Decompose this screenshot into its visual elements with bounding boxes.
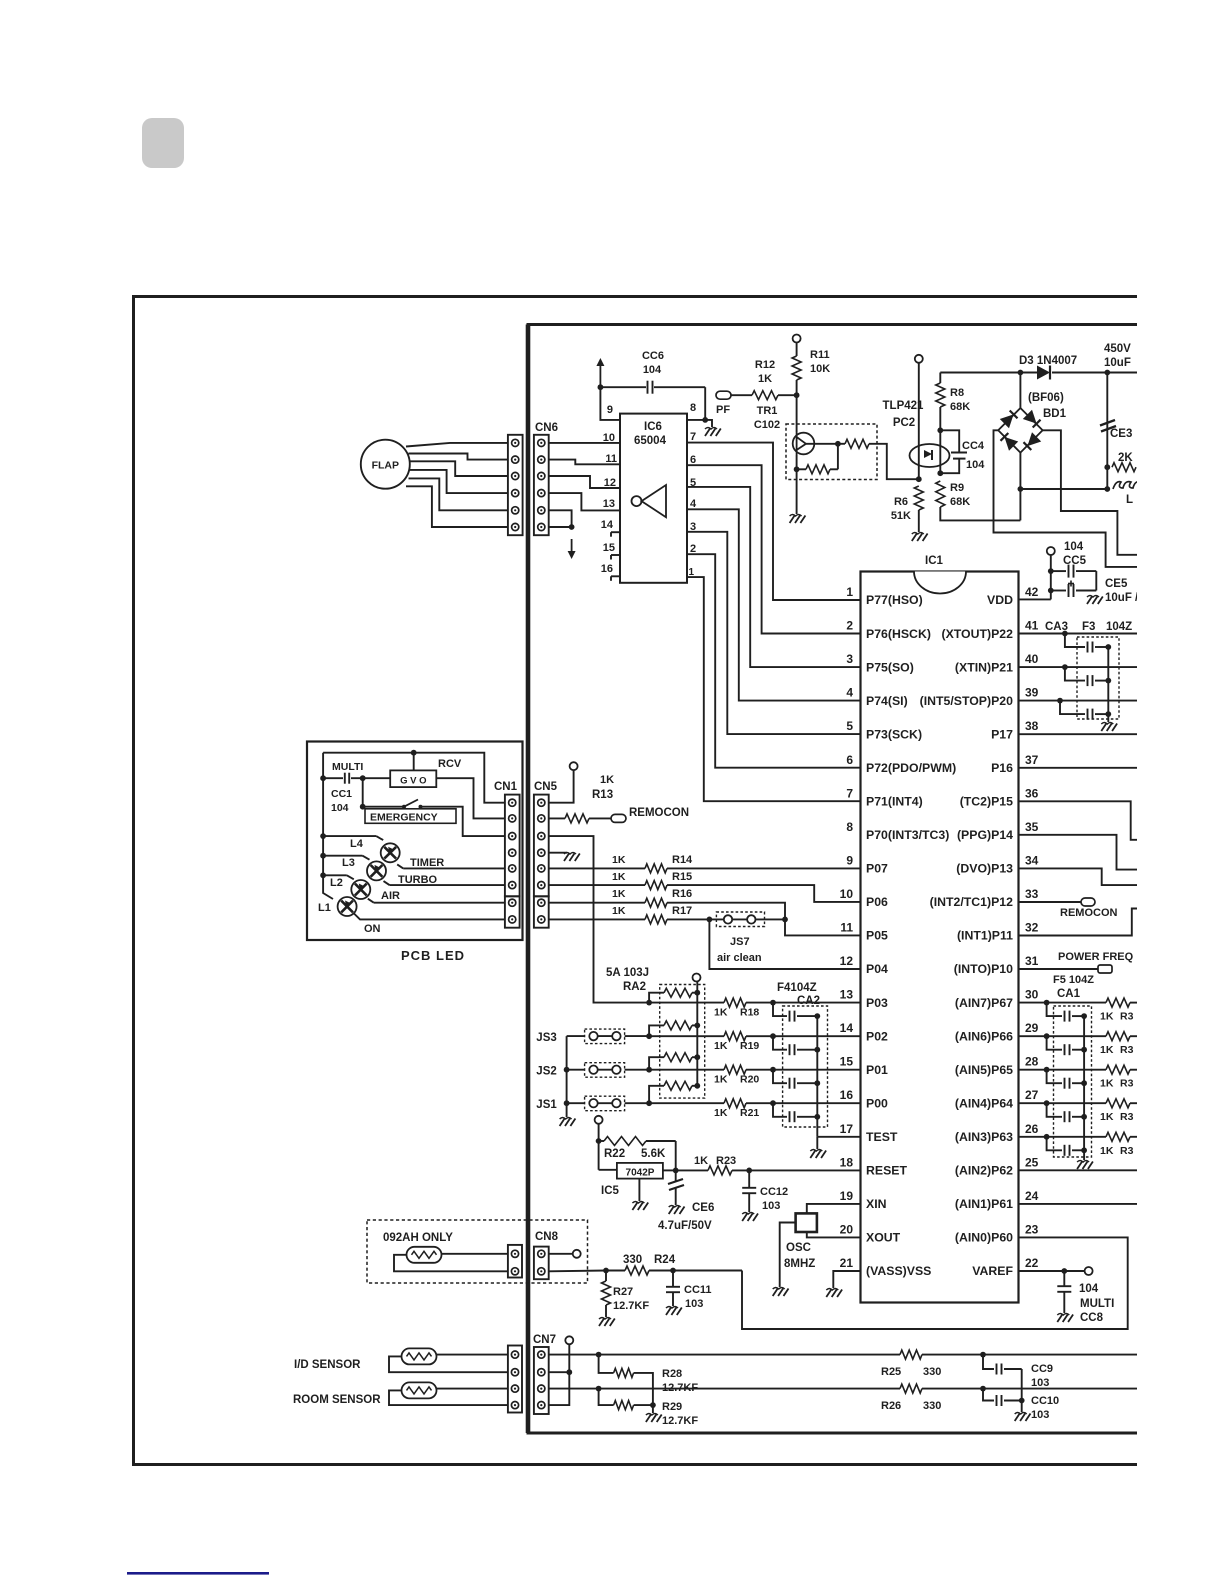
svg-text:18: 18 [840,1155,854,1169]
svg-text:(AIN1)P61: (AIN1)P61 [955,1197,1013,1211]
svg-text:R20: R20 [740,1074,759,1086]
svg-text:10uF: 10uF [1104,357,1131,369]
CN5 pin1 terminal [570,762,578,770]
capacitor CA3-2 [1065,667,1085,681]
svg-text:L4: L4 [350,838,364,850]
connector housing (left of CN6) [508,435,523,535]
svg-text:3: 3 [846,652,853,666]
svg-text:41: 41 [1025,619,1039,633]
svg-text:1K: 1K [612,888,626,900]
svg-text:092AH ONLY: 092AH ONLY [383,1232,453,1244]
svg-text:65004: 65004 [634,435,667,447]
svg-text:23: 23 [1025,1222,1039,1236]
svg-text:24: 24 [1025,1189,1039,1203]
svg-text:CC8: CC8 [1080,1312,1104,1324]
wire IC6 pin8 to CC6 and ground [687,419,705,421]
svg-text:32: 32 [1025,921,1039,935]
svg-text:(XTOUT)P22: (XTOUT)P22 [941,627,1013,641]
svg-text:1: 1 [846,585,853,599]
svg-text:103: 103 [762,1200,780,1212]
svg-text:1K: 1K [600,774,614,786]
capacitor CA1-4 [1047,1103,1062,1117]
svg-text:330: 330 [623,1254,642,1266]
resistor R11 10K [793,335,801,343]
wire P65 row with resistor 1K R3x [1019,1069,1107,1071]
svg-text:36: 36 [1025,786,1039,800]
motor FLAP [361,440,410,489]
resistor RA2-2 [649,1025,664,1036]
svg-text:104: 104 [331,802,349,814]
svg-text:6: 6 [846,753,853,767]
LED L2 AIR [323,874,347,876]
svg-text:1K: 1K [612,871,626,883]
capacitor CA1-2 [1047,1036,1062,1050]
jumper ground chain [566,1036,568,1117]
svg-text:1K: 1K [612,854,626,866]
connector housing (left of CN8) [508,1245,522,1278]
svg-text:P02: P02 [866,1029,888,1043]
row P11 [1019,909,1138,936]
row P14 [1019,835,1138,870]
svg-text:CC5: CC5 [1063,555,1087,567]
capacitor CA2-3 [773,1070,787,1084]
svg-text:104: 104 [1079,1283,1099,1295]
feedback resistor in TR1 box [837,444,839,470]
svg-text:1K: 1K [714,1074,728,1086]
svg-text:ROOM SENSOR: ROOM SENSOR [293,1394,381,1406]
svg-text:13: 13 [840,988,854,1002]
svg-text:REMOCON: REMOCON [1060,907,1118,919]
svg-text:L: L [1126,494,1133,506]
wire P66 row with resistor 1K R3x [1019,1035,1107,1037]
svg-text:1K: 1K [714,1040,728,1052]
svg-text:R12: R12 [755,359,775,371]
wires FLAP to connector [406,443,508,447]
svg-text:IC6: IC6 [644,421,662,433]
svg-text:JS1: JS1 [536,1099,557,1111]
svg-text:4: 4 [846,686,853,700]
svg-text:10uF /: 10uF / [1105,592,1139,604]
resistor R18 1K on P03 row [649,1002,724,1004]
svg-text:38: 38 [1025,719,1039,733]
svg-text:CC4: CC4 [962,440,985,452]
net JS7-left to P04 [709,919,860,969]
svg-text:5.6K: 5.6K [641,1148,666,1160]
svg-text:(AIN2)P62: (AIN2)P62 [955,1164,1013,1178]
svg-text:104: 104 [643,364,662,376]
resistor RA2-1 [649,993,664,1003]
GVO out to CN1 pin2 [436,778,505,818]
svg-text:P74(SI): P74(SI) [866,694,908,708]
wire IC6 pin9 [600,387,620,420]
svg-text:P07: P07 [866,862,888,876]
svg-text:7042P: 7042P [626,1167,655,1178]
svg-text:F5 104Z: F5 104Z [1053,974,1094,986]
svg-text:(INTO)P10: (INTO)P10 [954,962,1013,976]
capacitor CA2-4 [773,1103,787,1117]
svg-text:RCV: RCV [438,758,462,770]
svg-text:R14: R14 [672,854,693,866]
resistor R27 12.7KF [603,1268,609,1274]
svg-text:12.7KF: 12.7KF [613,1300,649,1312]
svg-text:CC11: CC11 [684,1284,712,1296]
svg-text:9: 9 [607,404,613,416]
svg-text:CN7: CN7 [533,1334,556,1346]
option box 092AH ONLY [367,1220,588,1283]
svg-text:1K: 1K [1100,1078,1114,1090]
capacitor CA1-5 [1047,1137,1062,1151]
net sensor2 row with R26 330 and CC10 [549,1388,900,1390]
wire P63 row with resistor 1K R3x [1019,1136,1107,1138]
svg-text:15: 15 [840,1055,854,1069]
wire P20 row [1019,700,1138,702]
svg-text:BD1: BD1 [1043,408,1067,420]
svg-text:12.7KF: 12.7KF [662,1415,698,1427]
svg-text:104Z: 104Z [1106,621,1132,633]
svg-text:CC10: CC10 [1031,1395,1059,1407]
svg-text:IC1: IC1 [925,555,944,567]
capacitor CA2-1 [773,1003,787,1017]
svg-text:TIMER: TIMER [410,857,444,869]
svg-text:P00: P00 [866,1097,888,1111]
svg-text:R9: R9 [950,482,964,494]
TEST row to CA2 common + ground [817,1136,860,1138]
terminal PF [716,391,731,399]
svg-text:EMERGENCY: EMERGENCY [370,811,438,823]
wire P22 row [1019,633,1138,635]
svg-text:1K: 1K [612,905,626,917]
svg-text:P04: P04 [866,962,888,976]
svg-text:D3 1N4007: D3 1N4007 [1019,355,1077,367]
svg-text:68K: 68K [950,401,970,413]
svg-text:P71(INT4): P71(INT4) [866,795,923,809]
svg-text:CC1: CC1 [331,788,352,800]
net VDD pin42 [1019,598,1051,600]
reset IC5 7042P [617,1163,663,1179]
svg-text:P01: P01 [866,1063,888,1077]
svg-text:R3: R3 [1120,1145,1134,1157]
svg-text:103: 103 [1031,1377,1049,1389]
svg-text:R3: R3 [1120,1111,1134,1123]
row P12 REMOCON [1019,901,1084,903]
svg-text:4.7uF/50V: 4.7uF/50V [658,1220,712,1232]
svg-text:(AIN5)P65: (AIN5)P65 [955,1063,1013,1077]
svg-text:MULTI: MULTI [1080,1298,1114,1310]
resistor R21 1K on P00 row [649,1102,724,1104]
svg-text:RESET: RESET [866,1164,907,1178]
svg-text:PF: PF [716,404,730,416]
capacitor CA3-3 [1060,701,1085,715]
svg-text:(AIN6)P66: (AIN6)P66 [955,1029,1013,1043]
svg-text:1K: 1K [1100,1044,1114,1056]
svg-text:JS2: JS2 [536,1066,556,1078]
svg-text:11: 11 [840,921,853,935]
svg-text:CN1: CN1 [494,781,518,793]
svg-text:19: 19 [840,1189,854,1203]
svg-text:(VASS)VSS: (VASS)VSS [866,1264,931,1278]
svg-text:40: 40 [1025,652,1039,666]
svg-text:5A 103J: 5A 103J [606,967,649,979]
EMERGENCY switch to CN1 pin3 [362,778,364,807]
page: gray rounded marker top-left [142,118,184,168]
svg-text:R27: R27 [613,1286,633,1298]
resistor R28 12.7KF [599,1355,614,1373]
svg-text:CC6: CC6 [642,350,664,362]
svg-text:CC9: CC9 [1031,1363,1053,1375]
svg-text:27: 27 [1025,1088,1039,1102]
svg-text:8: 8 [846,820,853,834]
svg-text:PC2: PC2 [893,417,915,429]
svg-text:REMOCON: REMOCON [629,807,689,819]
svg-text:(AIN4)P64: (AIN4)P64 [955,1097,1013,1111]
svg-text:21: 21 [840,1256,854,1270]
resistor RA2-4 [649,1086,664,1103]
wire P64 row with resistor 1K R3x [1019,1102,1107,1104]
svg-text:1K: 1K [1100,1145,1114,1157]
svg-text:(DVO)P13: (DVO)P13 [956,862,1013,876]
wire CN6 pins 5+6 to common arrow [549,510,572,527]
svg-text:2K: 2K [1118,452,1133,464]
svg-text:I/D SENSOR: I/D SENSOR [294,1359,361,1371]
inductor L [1113,482,1141,489]
svg-text:25: 25 [1025,1155,1039,1169]
svg-text:28: 28 [1025,1055,1039,1069]
svg-text:R28: R28 [662,1368,682,1380]
svg-text:R22: R22 [604,1148,625,1160]
svg-text:1K: 1K [714,1107,728,1119]
svg-text:4: 4 [690,498,697,510]
svg-text:330: 330 [923,1366,941,1378]
svg-text:L3: L3 [342,857,355,869]
capacitor CC11 103 [670,1268,676,1274]
svg-text:R17: R17 [672,905,692,917]
svg-text:P75(SO): P75(SO) [866,660,914,674]
svg-text:CA1: CA1 [1057,988,1081,1000]
svg-text:R15: R15 [672,871,692,883]
svg-text:F4104Z: F4104Z [777,982,817,994]
reset circuit R22 5.6K [595,1116,603,1124]
svg-text:33: 33 [1025,887,1039,901]
svg-text:13: 13 [603,498,615,510]
svg-text:C102: C102 [754,419,780,431]
svg-text:16: 16 [840,1088,854,1102]
capacitor CA2-2 [773,1036,787,1050]
svg-text:(TC2)P15: (TC2)P15 [960,795,1013,809]
svg-text:1K: 1K [714,1007,728,1019]
row P60 loop to R24 node [742,1237,1128,1329]
row P15 [1019,801,1138,840]
bridge minus wire [1019,453,1021,521]
svg-text:39: 39 [1025,686,1039,700]
svg-text:R25: R25 [881,1366,901,1378]
svg-text:(BF06): (BF06) [1028,392,1064,404]
svg-text:air clean: air clean [717,952,762,964]
svg-text:P76(HSCK): P76(HSCK) [866,627,931,641]
svg-text:103: 103 [1031,1409,1049,1421]
net VAREF with CC8 [1019,1270,1085,1272]
jumper JS7 air clean [707,917,713,923]
svg-text:R11: R11 [810,349,830,361]
svg-text:(AIN3)P63: (AIN3)P63 [955,1130,1013,1144]
svg-text:CN8: CN8 [535,1231,559,1243]
svg-text:AIR: AIR [381,890,400,902]
svg-text:P17: P17 [991,727,1013,741]
svg-text:1K: 1K [758,373,772,385]
svg-text:42: 42 [1025,585,1039,599]
resistor R19 1K on P02 row [649,1035,724,1037]
resistor R29 12.7KF [599,1389,614,1406]
svg-text:8: 8 [690,402,696,414]
svg-text:26: 26 [1025,1122,1039,1136]
net sensor1 row with R25 330 and CC9 [549,1354,900,1356]
IR receiver G V O [390,770,436,787]
svg-text:68K: 68K [950,496,970,508]
LED L3 TURBO [323,855,362,857]
ground CA1 [1077,1162,1082,1170]
IC6 output wires to IC1 [687,443,861,600]
svg-text:12.7KF: 12.7KF [662,1382,698,1394]
svg-text:P16: P16 [991,761,1013,775]
bridge AC-right wire [1043,430,1137,555]
outer schematic frame (clipped at right) [134,297,1138,1465]
resistor RA2-3 [649,1057,664,1070]
IC6 unused pin stubs 14 15 16 [611,531,620,533]
svg-text:104: 104 [966,459,985,471]
svg-text:PCB LED: PCB LED [401,948,465,963]
svg-text:(INT5/STOP)P20: (INT5/STOP)P20 [920,694,1014,708]
svg-text:30: 30 [1025,988,1039,1002]
svg-text:VAREF: VAREF [972,1264,1013,1278]
base resistor to PC2 [845,439,869,448]
svg-text:31: 31 [1025,954,1039,968]
svg-text:34: 34 [1025,853,1039,867]
resistor R20 1K on P01 row [649,1069,724,1071]
svg-text:103: 103 [685,1298,703,1310]
svg-text:VDD: VDD [987,593,1013,607]
svg-text:P70(INT3/TC3): P70(INT3/TC3) [866,828,949,842]
svg-text:R18: R18 [740,1007,759,1019]
svg-text:22: 22 [1025,1256,1039,1270]
crystal OSC 8MHZ [807,1204,861,1214]
svg-text:TEST: TEST [866,1130,898,1144]
inverter IC6 65004 [620,414,687,583]
svg-text:R24: R24 [654,1254,676,1266]
ground CA3 [1101,724,1106,732]
row P13 [1019,868,1138,885]
svg-text:R8: R8 [950,387,964,399]
svg-text:7: 7 [690,431,696,443]
svg-text:L1: L1 [318,902,331,914]
svg-text:JS7: JS7 [730,936,750,948]
svg-text:TLP421: TLP421 [883,400,925,412]
svg-text:10: 10 [840,887,854,901]
svg-text:8MHZ: 8MHZ [784,1258,815,1270]
svg-text:15: 15 [603,542,615,554]
svg-text:9: 9 [846,853,853,867]
svg-text:1K: 1K [1100,1011,1114,1023]
svg-text:(AIN0)P60: (AIN0)P60 [955,1231,1013,1245]
svg-text:POWER FREQ: POWER FREQ [1058,951,1134,963]
inner board frame [528,325,1137,1434]
svg-text:5: 5 [846,719,853,733]
svg-text:R26: R26 [881,1400,901,1412]
svg-text:R3: R3 [1120,1044,1134,1056]
wire P67 row with resistor 1K R3x [1019,1002,1107,1004]
svg-text:104: 104 [1064,541,1084,553]
svg-text:330: 330 [923,1400,941,1412]
svg-text:17: 17 [840,1122,854,1136]
svg-text:IC5: IC5 [601,1185,620,1197]
PCB LED board box [307,742,523,941]
svg-text:R21: R21 [740,1107,759,1119]
svg-text:OSC: OSC [786,1242,811,1254]
svg-text:(INT1)P11: (INT1)P11 [957,929,1013,943]
svg-text:29: 29 [1025,1021,1039,1035]
svg-text:P05: P05 [866,929,888,943]
svg-text:XOUT: XOUT [866,1231,901,1245]
svg-text:R29: R29 [662,1401,682,1413]
svg-text:51K: 51K [891,510,911,522]
svg-text:CE6: CE6 [692,1202,714,1214]
svg-text:35: 35 [1025,820,1039,834]
svg-text:(PPG)P14: (PPG)P14 [957,828,1013,842]
svg-text:(AIN7)P67: (AIN7)P67 [955,996,1013,1010]
svg-text:10K: 10K [810,363,830,375]
svg-text:R19: R19 [740,1040,759,1052]
svg-text:R6: R6 [894,496,908,508]
svg-text:RA2: RA2 [623,981,646,993]
svg-text:G V O: G V O [400,775,426,786]
svg-text:CN6: CN6 [535,422,558,434]
rows P67..P63 with CA1 caps and 1K resistors [1054,1006,1092,1157]
svg-text:TR1: TR1 [757,405,778,417]
svg-text:P73(SCK): P73(SCK) [866,727,922,741]
CN7 terminal vertical [549,1345,570,1406]
svg-text:CN5: CN5 [534,781,558,793]
svg-text:P77(HSO): P77(HSO) [866,593,923,607]
svg-text:MULTI: MULTI [332,761,363,773]
svg-text:FLAP: FLAP [372,460,399,472]
svg-text:11: 11 [605,453,617,465]
capacitor CA1-3 [1047,1070,1062,1084]
thermistor (092AH) [407,1247,442,1263]
net CN8 pin2 to R24 node [549,1270,606,1273]
svg-text:P72(PDO/PWM): P72(PDO/PWM) [866,761,956,775]
svg-text:16: 16 [601,563,613,575]
svg-text:2: 2 [690,543,696,555]
wire P21 row [1019,666,1138,668]
wires CN6 to IC6 [549,442,620,444]
capacitor CC12 103 [746,1168,752,1174]
svg-text:1K: 1K [1100,1111,1114,1123]
svg-text:CE3: CE3 [1110,428,1132,440]
svg-text:450V: 450V [1104,343,1131,355]
svg-text:CA2: CA2 [797,995,820,1007]
svg-text:CC12: CC12 [760,1186,788,1198]
svg-text:XIN: XIN [866,1197,887,1211]
svg-text:37: 37 [1025,753,1039,767]
svg-text:JS3: JS3 [536,1032,556,1044]
CN5 pin4 ground [549,852,567,854]
svg-text:R3: R3 [1120,1078,1134,1090]
svg-text:CE5: CE5 [1105,578,1128,590]
capacitor CE6 4.7uF/50V [673,1168,679,1174]
capacitors CC5 / CE5 at VDD [1047,547,1055,555]
svg-text:TURBO: TURBO [398,874,438,886]
svg-text:12: 12 [840,954,854,968]
svg-text:R16: R16 [672,888,692,900]
rows P62 P61 [1019,1169,1138,1171]
